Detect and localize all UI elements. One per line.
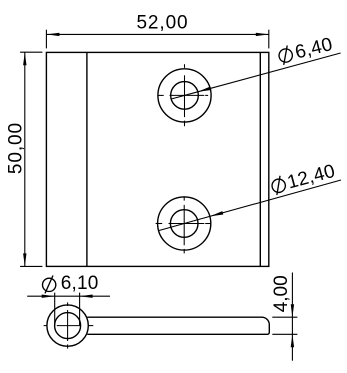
dimension 52,00 extension line left [45,30,47,49]
bottom view hole horizontal centerline [44,325,94,327]
dimension 4,00 top arrowhead [291,304,294,317]
dimension 4,00 extension line top [272,316,297,318]
dimension 4,00 extension line bottom [272,333,297,335]
dimension 4,00 bottom arrowhead [291,334,294,347]
bottom hole inner circle (hole) [170,210,198,238]
leader line Ø12,40 through bottom hole [159,216,210,230]
bottom view hole vertical centerline [67,302,69,348]
dimension 50,00 extension line bottom [20,265,42,267]
top hole horizontal centerline [158,94,209,96]
plate inner right vertical edge line [259,52,261,266]
svg-text:4,00: 4,00 [271,275,292,312]
leader Ø6,40 arrowhead at inner circle [198,87,211,92]
dimension 50,00 top arrowhead [23,52,26,65]
top hole inner circle (hole Ø6.40) [171,82,199,110]
dimension Ø6,10 line [27,295,110,297]
plate front view outline [46,52,268,266]
dimension 52,00 line [46,33,268,35]
top hole vertical centerline [184,64,186,126]
dimension 50,00 line [24,52,26,266]
dimension text Ø 6,40 (rotated) [277,34,335,67]
bottom view hole circle [55,313,81,339]
dimension text Ø 6,10 [43,273,99,294]
dimension 50,00 extension line top [20,51,42,53]
dimension Ø6,10 extension line left [54,293,56,326]
dimension 52,00 extension line right [268,30,270,49]
svg-text:52,00: 52,00 [136,12,188,33]
dimension Ø6,10 right arrowhead [80,295,93,298]
dimension 52,00 right arrowhead [256,33,269,36]
dimension 52,00 left arrowhead [46,33,59,36]
bottom hole horizontal centerline [156,223,211,225]
dimension 4,00 line [291,273,293,361]
dimension Ø6,10 left arrowhead [42,295,55,298]
bottom view boss circle [47,305,88,346]
leader line Ø6,40 through top hole [171,92,198,99]
svg-text:6,10: 6,10 [61,273,99,294]
bottom view bar outline [87,317,269,334]
svg-text:50,00: 50,00 [5,122,26,174]
bottom hole vertical centerline [183,196,185,253]
leader Ø12,40 arrowhead at outer circle [210,211,223,216]
top hole outer circle (boss Ø12.40) [158,69,211,122]
dimension text Ø 12,40 (rotated) [270,161,338,198]
plate inner left vertical edge line [86,52,88,266]
dimension Ø6,10 extension line right [79,293,81,326]
dimension 50,00 bottom arrowhead [23,253,26,266]
bottom hole outer circle (boss Ø12.40) [158,197,211,250]
